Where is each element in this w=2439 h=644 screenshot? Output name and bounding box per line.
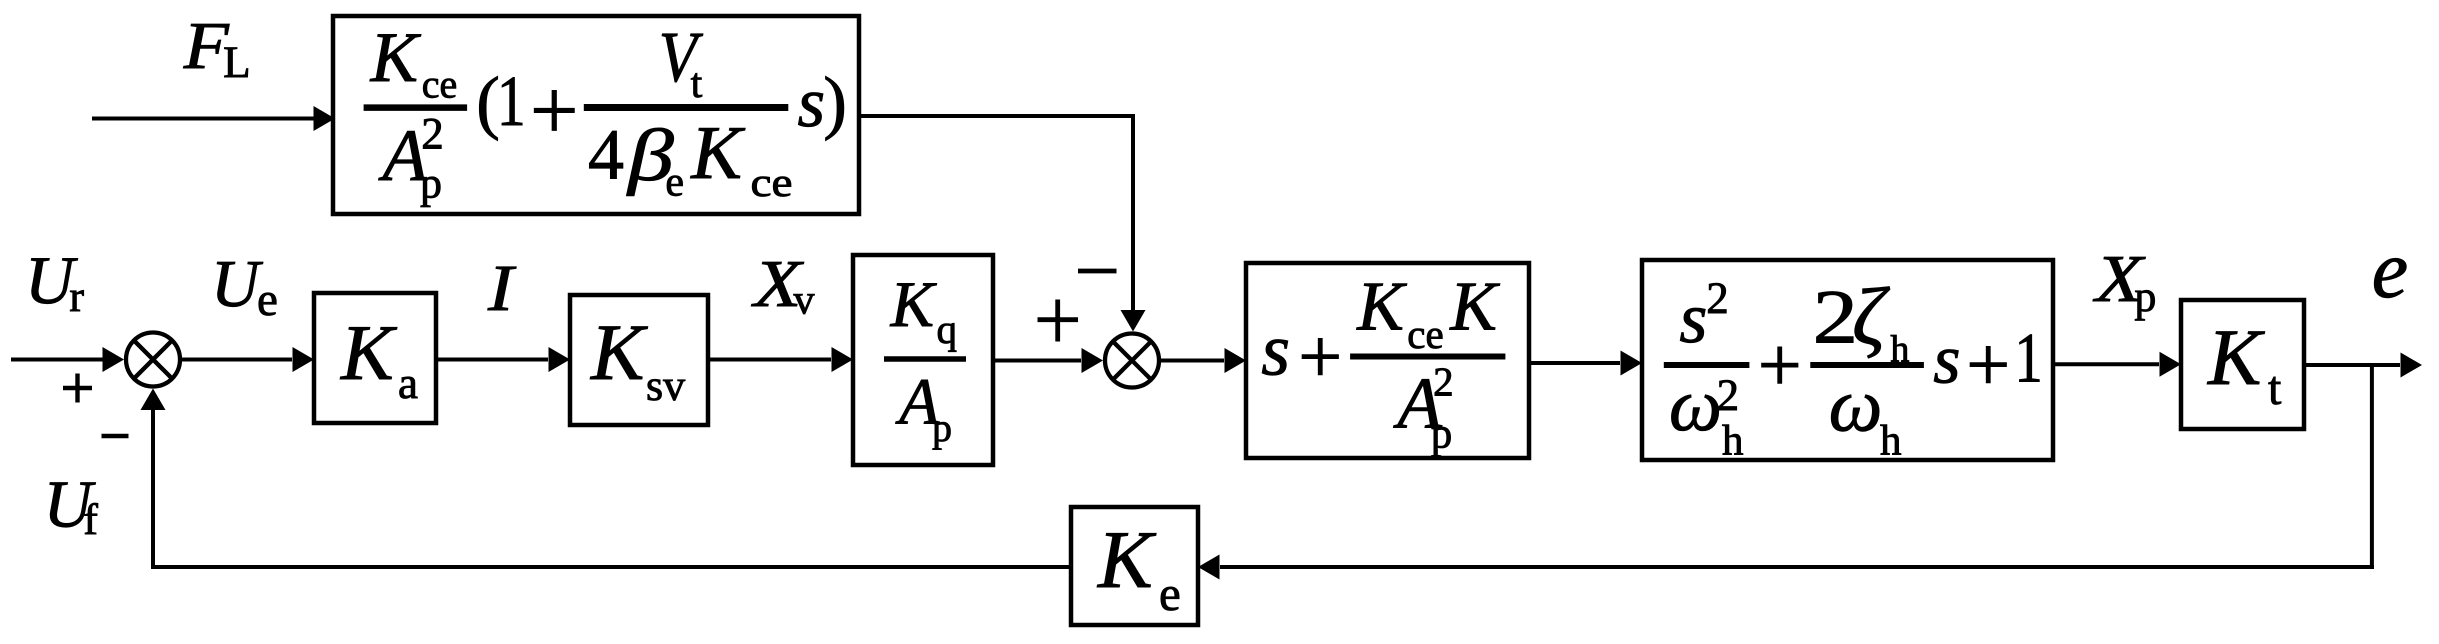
wire S1 to K_a (180, 347, 314, 372)
wire K_sv to K_q/A_p block (708, 347, 853, 372)
node X_p label (2092, 242, 2156, 321)
svg-text:r: r (69, 272, 84, 321)
svg-text:ce: ce (751, 159, 793, 205)
svg-text:t: t (2268, 362, 2282, 415)
wire K_t to output arrow (2304, 353, 2422, 378)
block load transfer function Kce/Ap^2 (1 + Vt/(4 beta_e Kce) s) (333, 16, 859, 214)
svg-text:K: K (1097, 514, 1157, 605)
svg-text:+: + (1758, 321, 1802, 408)
svg-text:+: + (1966, 321, 2010, 408)
svg-text:e: e (665, 159, 684, 205)
wire K_q/A_p to S2 (993, 348, 1103, 373)
svg-text:K: K (1449, 269, 1500, 346)
svg-text:K: K (890, 269, 938, 341)
wire second order block to K_t (2053, 352, 2181, 377)
minus sign at S2 top input (1078, 269, 1117, 274)
svg-text:e: e (2372, 224, 2408, 315)
svg-text:): ) (823, 63, 847, 141)
svg-text:L: L (223, 37, 251, 87)
node I label (487, 252, 517, 325)
svg-text:I: I (487, 252, 517, 325)
node U_r label (25, 242, 84, 321)
svg-text:p: p (932, 405, 952, 450)
wire main input arrow (11, 347, 124, 372)
svg-text:K: K (590, 309, 648, 397)
svg-text:K: K (340, 310, 398, 397)
svg-text:4: 4 (588, 115, 624, 195)
svg-text:+: + (530, 62, 579, 158)
svg-text:K: K (1356, 269, 1407, 346)
svg-text:K: K (690, 111, 745, 195)
svg-text:p: p (420, 159, 442, 208)
block K_a (314, 293, 436, 423)
minus sign at S1 feedback (102, 434, 129, 438)
summing junction S2 (1105, 334, 1159, 388)
svg-text:K: K (370, 19, 422, 97)
svg-text:q: q (937, 306, 958, 352)
svg-text:a: a (398, 358, 418, 408)
node U_f label (44, 468, 99, 545)
plus sign at S2 (1038, 300, 1079, 342)
svg-text:v: v (794, 278, 815, 324)
svg-text:p: p (2134, 272, 2156, 321)
svg-text:2: 2 (1433, 359, 1454, 405)
summing junction S1 (126, 333, 180, 387)
svg-text:2: 2 (1717, 370, 1740, 420)
svg-text:K: K (2207, 314, 2265, 402)
svg-text:h: h (1880, 417, 1902, 464)
wire S2 to hydraulic block (1159, 348, 1246, 373)
svg-text:s: s (1261, 309, 1290, 391)
svg-text:ce: ce (1407, 311, 1443, 357)
svg-text:s: s (1933, 322, 1960, 399)
svg-text:ω: ω (1669, 364, 1722, 447)
wire K_e output to S1 feedback input (141, 389, 1072, 570)
wire top block output to summing junction S2 (859, 114, 1146, 332)
svg-text:2: 2 (1706, 273, 1729, 323)
svg-text:1: 1 (497, 61, 526, 141)
block K_q/A_p (853, 255, 993, 465)
block s + KceK/Ap^2 (1246, 263, 1529, 458)
svg-text:f: f (83, 495, 98, 544)
svg-text:1: 1 (2014, 320, 2042, 398)
svg-text:p: p (1431, 411, 1453, 458)
block K_sv (570, 295, 708, 425)
svg-text:ω: ω (1829, 364, 1883, 448)
node X_v label (750, 247, 814, 324)
node U_e label (211, 247, 278, 326)
block K_t (2181, 300, 2304, 429)
svg-text:ce: ce (422, 62, 458, 107)
svg-text:+: + (1298, 313, 1342, 400)
svg-text:t: t (691, 61, 703, 107)
node e output label (2372, 224, 2408, 315)
wire K_a to K_sv (436, 347, 570, 372)
block s^2/wh^2 + 2 zeta_h/wh s + 1 (1642, 260, 2053, 464)
svg-text:h: h (1722, 417, 1744, 464)
wire hydraulic block to second order block (1529, 351, 1642, 376)
node F_L label (183, 9, 251, 87)
svg-text:s: s (1679, 278, 1707, 358)
svg-text:sv: sv (646, 361, 685, 410)
block K_e feedback (1071, 507, 1198, 625)
svg-text:s: s (798, 64, 826, 142)
wire output branch down to feedback (1198, 365, 2374, 580)
svg-text:e: e (257, 274, 278, 326)
plus sign at S1 (63, 374, 92, 403)
svg-text:ζ: ζ (1852, 271, 1890, 362)
wire F_L input arrow (92, 106, 335, 131)
svg-text:2: 2 (421, 108, 444, 158)
svg-text:e: e (1159, 566, 1181, 621)
